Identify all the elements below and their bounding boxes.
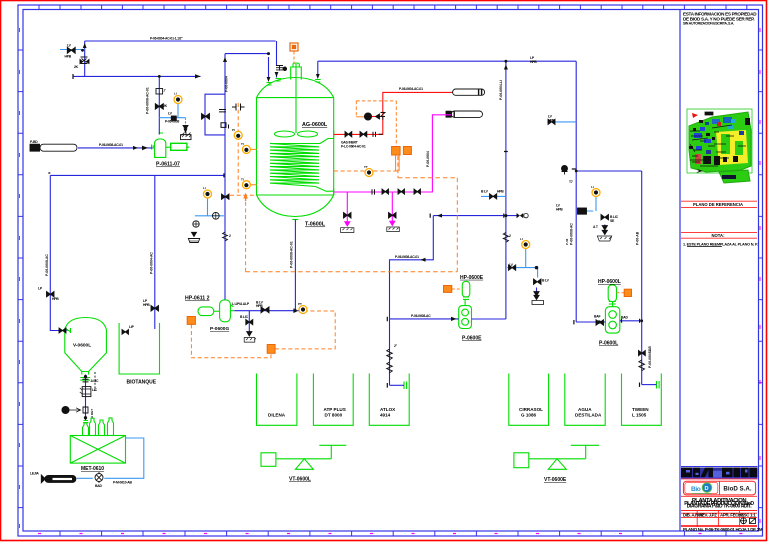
wire magenta funnel branch 347 <box>346 192 348 226</box>
valve loop 205 <box>202 114 210 120</box>
wire riser x505.9 <box>505 61 507 319</box>
svg-text:HP-0600L: HP-0600L <box>598 279 621 285</box>
svg-text:ESC 1:1: ESC 1:1 <box>741 512 756 517</box>
svg-text:D: D <box>705 486 709 492</box>
title block divider line <box>679 10 681 532</box>
magenta sprayer capsule <box>446 111 483 117</box>
wire bypass loop <box>205 94 225 135</box>
SMALL PIPE LABELS <box>30 37 652 489</box>
signal vessel right <box>334 156 398 178</box>
site plan yellow zone <box>716 130 748 165</box>
valve biotanque feed <box>151 306 159 312</box>
table texts <box>684 498 754 509</box>
svg-text:P-06-0608-AC-01: P-06-0608-AC-01 <box>395 255 419 259</box>
agitator impeller <box>275 131 295 137</box>
wire pump feed <box>78 147 153 149</box>
funnel drain 194 left chain <box>192 232 197 236</box>
MAGENTA LINES <box>334 115 452 226</box>
svg-text:P-0611-07: P-0611-07 <box>156 162 180 168</box>
svg-text:ATLOX: ATLOX <box>380 407 396 412</box>
vessel bottom tick <box>292 219 298 221</box>
signal HP-0600L stub <box>617 292 625 294</box>
instrument box V-0600 drop <box>82 387 91 397</box>
instrument bubble LV 526 <box>522 241 530 249</box>
coil inlet stub <box>320 139 334 144</box>
svg-text:P-06-0608: P-06-0608 <box>165 120 179 124</box>
strainer capsule bottom-left <box>45 475 76 482</box>
V-0600L inlet nozzle tick <box>65 328 71 332</box>
wire V-0600L bottom drop <box>85 375 87 421</box>
wire instrument drop x159 <box>158 76 160 134</box>
svg-text:AGUA: AGUA <box>578 407 592 412</box>
svg-text:P-06: P-06 <box>565 238 569 245</box>
tank TWEEN L 1505 <box>622 374 662 426</box>
pump P-0611-07 inlet ticks <box>152 133 163 150</box>
funnel 249 <box>247 332 252 336</box>
funnel drain 185 <box>183 126 188 130</box>
svg-text:B LV: B LV <box>542 279 550 283</box>
vessel side nozzle ticks <box>333 131 335 196</box>
wire funnel branch x605 <box>604 225 606 231</box>
inst chain left 196 <box>193 221 199 227</box>
svg-text:LIC: LIC <box>92 388 98 392</box>
interlock squares x396 <box>392 147 401 156</box>
BLACK SYMBOLS <box>30 47 645 483</box>
svg-text:1. ESTE PLANO REEMPLAZA AL PLA: 1. ESTE PLANO REEMPLAZA AL PLANO N. P. <box>683 242 758 246</box>
wire left drop <box>84 41 86 76</box>
instrument bubble PT 303 <box>299 306 307 314</box>
GREEN EQUIPMENT <box>65 63 662 469</box>
site plan black roads/marks <box>690 112 732 166</box>
svg-text:4914: 4914 <box>380 413 391 418</box>
wire L3 overhead <box>318 60 576 62</box>
signal HP-0600E stub <box>452 288 463 290</box>
valves red header <box>345 132 367 137</box>
svg-text:HPB: HPB <box>556 208 563 212</box>
wire magenta vessel drain header <box>334 115 452 192</box>
signal HP-0611-2 loop <box>191 324 271 357</box>
wire HP-0611-2 discharge run <box>234 310 299 312</box>
tank inlet tick ATLOX <box>404 382 407 390</box>
HP-0611-2 column <box>220 300 231 322</box>
svg-text:VT-0600E: VT-0600E <box>544 477 567 483</box>
biod logo red box <box>683 481 755 495</box>
svg-text:PI: PI <box>232 128 235 132</box>
valve V-0600 inlet <box>59 328 66 333</box>
svg-text:TI: TI <box>241 142 244 146</box>
valve V-0600 feed a <box>47 292 55 297</box>
wire cyan LV at riser <box>195 199 224 216</box>
TITLE BLOCK <box>680 10 757 532</box>
valves riser 641 <box>639 351 646 356</box>
wire cross header y171 <box>576 170 642 172</box>
svg-text:BioD S.A.: BioD S.A. <box>723 485 751 492</box>
tank ATP PLUS DT 8000 <box>313 374 353 426</box>
valve HP-0611 discharge <box>261 307 269 313</box>
wire funnel branch x249 <box>248 311 250 332</box>
svg-text:P-06-0608-AC: P-06-0608-AC <box>45 254 49 276</box>
svg-text:BIOTANQUE: BIOTANQUE <box>127 380 157 386</box>
wire V-0600L feed <box>50 175 62 330</box>
svg-text:AG-0600L: AG-0600L <box>302 122 328 128</box>
red table grid <box>681 496 757 526</box>
site plan yellow inner green blocks <box>721 134 730 154</box>
flange ticks <box>48 50 639 387</box>
magenta border numerals bottom <box>38 533 742 535</box>
svg-text:HP-0611 2: HP-0611 2 <box>185 296 210 302</box>
svg-text:P-BD: P-BD <box>30 140 38 144</box>
interlock square HP-0611-2 <box>187 317 195 325</box>
arrowhead y215 <box>437 214 442 218</box>
INSTRUMENT BUBBLES <box>174 92 600 314</box>
flange V-0600 drop <box>83 379 89 382</box>
svg-text:P-M-0610-AB: P-M-0610-AB <box>113 481 132 485</box>
wire red vessel gas out <box>334 92 453 134</box>
svg-text:P-0600L: P-0600L <box>599 341 618 347</box>
wire P-0600L discharge <box>620 320 642 322</box>
pump P-0600E body <box>459 306 472 329</box>
pump P-0600L body <box>605 307 619 333</box>
svg-text:P-06-0604-LI: P-06-0604-LI <box>499 80 503 100</box>
svg-text:BAD: BAD <box>621 316 628 320</box>
svg-text:HPB: HPB <box>143 303 150 307</box>
svg-text:ATP PLUS: ATP PLUS <box>324 407 346 412</box>
gauge dashed stub <box>94 372 96 391</box>
wire long header y175 <box>50 174 224 176</box>
svg-text:DIAGRAMA P&ID TK-0600 ADIT.: DIAGRAMA P&ID TK-0600 ADIT. <box>687 504 752 510</box>
wire riser x576 <box>575 61 577 322</box>
svg-text:SIN AUTORIZACION ESCRITA, S.A.: SIN AUTORIZACION ESCRITA, S.A. <box>683 22 734 26</box>
wire riser top run <box>225 53 269 55</box>
wire TWEEN feed <box>642 384 657 386</box>
svg-text:PLANTA ADITIVACION: PLANTA ADITIVACION <box>692 498 747 504</box>
svg-text:LI: LI <box>203 186 206 190</box>
wire cyan drain drop <box>185 118 187 130</box>
arrowhead L2 end <box>195 74 201 78</box>
svg-text:BAD: BAD <box>95 484 102 488</box>
wire L1 top <box>85 40 276 42</box>
signal top jog <box>398 177 457 179</box>
valve suction P-0600L <box>596 320 604 325</box>
valve on dome nozzle <box>276 65 283 71</box>
svg-text:T-0600L: T-0600L <box>305 222 326 228</box>
svg-text:DILENA: DILENA <box>268 413 286 418</box>
angle valve 537 <box>534 279 542 284</box>
projection symbols <box>740 517 756 524</box>
svg-text:A MET: A MET <box>90 409 94 418</box>
red flame arrestor capsule <box>453 89 485 95</box>
funnel magenta 347 <box>345 222 350 226</box>
svg-text:REV. J.PZ: REV. J.PZ <box>699 512 717 517</box>
valve magenta 392 <box>389 213 397 219</box>
svg-text:P-06-0608-AC: P-06-0608-AC <box>570 223 574 245</box>
wire BIOTANQUE feed <box>154 175 156 329</box>
MET-0610 bottles <box>83 421 88 423</box>
vessel manway nozzle <box>291 63 302 80</box>
wire P-0600E suction <box>390 318 459 320</box>
svg-text:DESTILADA: DESTILADA <box>575 413 602 418</box>
wire funnel branch x536 <box>536 288 538 297</box>
svg-text:P-06-0604-AC-01: P-06-0604-AC-01 <box>399 87 423 91</box>
svg-text:T7: T7 <box>569 180 573 184</box>
svg-text:HP-0600E: HP-0600E <box>460 275 484 281</box>
funnel 605 <box>602 230 607 234</box>
svg-text:VT-0600L: VT-0600L <box>289 477 311 483</box>
ARROWS <box>48 43 643 388</box>
wire cyan V-0600 inlet tick <box>62 330 68 332</box>
wire cyan top-left <box>60 49 85 51</box>
signal vessel top <box>293 52 295 64</box>
svg-text:L LIP/A ALP: L LIP/A ALP <box>232 302 250 306</box>
svg-text:B LIC: B LIC <box>240 315 249 319</box>
flex 225 <box>223 232 228 241</box>
wire drop to P-0600E <box>390 216 434 386</box>
CYAN LINES <box>60 50 596 479</box>
svg-text:TWEEN: TWEEN <box>632 407 649 412</box>
HP-0611-2 outlet stub <box>230 305 234 311</box>
svg-text:LEJIA: LEJIA <box>30 472 39 476</box>
airplane mark <box>696 169 703 173</box>
V-0600L hopper tank <box>65 318 107 372</box>
arrowhead L3 up 505 <box>504 65 508 70</box>
signal box at analyzers <box>356 101 396 146</box>
svg-text:TT: TT <box>364 165 368 169</box>
border ticks bottom <box>60 531 726 536</box>
vent symbol 565 <box>562 166 568 172</box>
svg-text:P-06-0604: P-06-0604 <box>426 151 430 167</box>
instrument bubble PI 237 <box>234 131 242 139</box>
site plan map frame <box>687 109 752 173</box>
signal bottom run <box>246 271 458 273</box>
svg-text:P-0600E: P-0600E <box>462 336 482 342</box>
svg-text:P-0600G: P-0600G <box>210 326 229 332</box>
funnel magenta 392 <box>390 221 395 225</box>
tank ATLOX 4914 <box>369 374 409 426</box>
interlock square HP-0600E <box>444 286 452 293</box>
valves magenta header <box>382 189 421 194</box>
svg-text:L 1505: L 1505 <box>632 413 647 418</box>
signal double drop below squares <box>396 155 400 171</box>
HP-0611-2 motor capsule <box>198 307 214 316</box>
instrument bubble LV 596 <box>592 189 600 197</box>
svg-text:LI: LI <box>174 92 177 96</box>
svg-text:LI: LI <box>520 237 523 241</box>
svg-text:HPB: HPB <box>497 190 504 194</box>
spec break 221 <box>219 110 226 128</box>
svg-text:B LV: B LV <box>481 190 489 194</box>
signal ladder cross run <box>230 194 257 196</box>
HP-0600E inline vessel <box>462 281 470 297</box>
HP-0600L inline vessel <box>608 285 616 302</box>
inst cross 215 <box>212 212 219 219</box>
line end instrument y215 <box>517 213 524 218</box>
svg-text:DT 8000: DT 8000 <box>325 413 343 418</box>
instrument bubble TI2 246 <box>242 181 250 189</box>
valve biotanque top <box>122 330 129 335</box>
svg-text:P-06-0608-AC-01: P-06-0608-AC-01 <box>99 143 123 147</box>
pump P-0611-07 motor box <box>171 143 187 150</box>
SITE MAP <box>687 109 752 183</box>
wire L1 drop to vessel <box>276 41 278 66</box>
arrowhead up L1 corner <box>83 43 87 48</box>
arrowhead nozzle down-arrows <box>275 72 279 77</box>
balance scale VT-0600L <box>261 453 276 467</box>
instrument bubble TT 369 <box>365 169 373 177</box>
RED LINES <box>334 92 453 134</box>
svg-text:NOTA:: NOTA: <box>712 233 725 238</box>
biodiesel banner <box>681 467 758 479</box>
wire tee y215.6 <box>433 215 518 217</box>
heating coil <box>270 144 320 187</box>
balance scale VT-0600E <box>514 453 529 468</box>
MET-0610 mixer tank <box>70 436 125 464</box>
wire magenta funnel branch 392 <box>391 192 393 226</box>
VERTICAL LABELS <box>45 76 652 418</box>
wire nozzle stub <box>269 57 277 79</box>
site plan south appendix <box>719 170 750 183</box>
wire cyan x576 <box>548 121 577 123</box>
instrument bubble TI 246 <box>242 145 250 153</box>
signal bubble stubs to wall <box>250 149 257 184</box>
signal ladder lower drop <box>245 195 247 272</box>
instrument bubble LI 178 <box>174 96 182 104</box>
tank CIRRASOL G 1086 <box>509 374 549 426</box>
svg-text:PLANO No. P-06-TK-0600-01 HOJA: PLANO No. P-06-TK-0600-01 HOJA 1 DE 2M <box>683 527 763 532</box>
site plan red arrow <box>692 113 698 118</box>
svg-text:BAF: BAF <box>594 315 600 319</box>
valve cluster top-left <box>67 47 75 53</box>
tank inlet tick TWEEN <box>657 381 660 389</box>
inst square cyan 583 <box>578 208 587 214</box>
svg-text:P-LC-0604-AC-01: P-LC-0604-AC-01 <box>341 145 366 149</box>
svg-text:PT: PT <box>298 302 302 306</box>
arrowhead suction L <box>599 320 604 324</box>
valve cyan 512 <box>508 265 515 270</box>
flex riser 389 <box>387 349 393 373</box>
wire cyan bubble 596 <box>579 197 596 212</box>
plano de referencia box <box>681 201 757 207</box>
flex riser 641 <box>639 360 645 371</box>
wire cyan LV bubble 526 <box>507 249 537 278</box>
valve cyan 493 <box>490 194 497 199</box>
svg-text:G 1086: G 1086 <box>521 413 537 418</box>
strainer capsule top-left <box>40 144 77 151</box>
signal left ladder <box>237 103 239 195</box>
wire cyan MET circuit <box>77 438 144 478</box>
svg-text:P-06-0604: P-06-0604 <box>225 76 229 92</box>
svg-text:DE BIOD S.A. Y NO PUEDE SER RE: DE BIOD S.A. Y NO PUEDE SER REP. <box>683 16 754 21</box>
nota box <box>681 233 757 239</box>
ORANGE SQUARES <box>187 43 631 353</box>
svg-text:HPB: HPB <box>256 304 263 308</box>
svg-text:PLANO DE REFERENCIA: PLANO DE REFERENCIA <box>693 202 743 207</box>
arrowhead pump feed <box>142 146 148 151</box>
wire vessel bottom drop <box>294 220 296 311</box>
svg-text:P-06-0604-AC: P-06-0604-AC <box>150 252 154 274</box>
svg-text:Bio: Bio <box>691 486 701 493</box>
instrument bubble LI 207 <box>204 190 212 198</box>
sink legs P-0611 <box>182 132 191 136</box>
svg-text:P-06-0604-AC-01-1.1/2": P-06-0604-AC-01-1.1/2" <box>150 37 183 41</box>
svg-text:HPB: HPB <box>65 54 72 58</box>
inst square cyan 172 <box>171 116 176 120</box>
signal stub to analyzer <box>356 116 365 118</box>
tank DILENA <box>257 374 297 426</box>
table cell texts <box>683 512 763 532</box>
svg-text:P-06-AB: P-06-AB <box>636 231 640 245</box>
wire main riser x225 <box>224 54 226 300</box>
svg-text:HPB: HPB <box>52 297 59 301</box>
arrowhead y258 left <box>421 258 426 262</box>
vessel seam lines <box>257 98 334 195</box>
vessel dome nozzle ticks <box>267 79 321 86</box>
site plan blue buildings <box>694 133 702 138</box>
sampler pigtail <box>62 406 69 413</box>
svg-text:.7: .7 <box>163 89 166 93</box>
notes text top right <box>683 12 757 26</box>
drum pump circle bottom-left <box>95 474 103 482</box>
flex riser 505 <box>503 233 508 243</box>
svg-text:LI: LI <box>591 185 594 189</box>
agitator shaft AG-0600L <box>295 64 297 133</box>
wire P-0600E discharge <box>472 318 506 320</box>
border ticks top <box>39 5 747 10</box>
FUNNELS AND SINKS <box>181 126 612 343</box>
valve magenta 347 <box>344 213 352 219</box>
svg-text:MET-0610: MET-0610 <box>81 466 104 472</box>
fitting V-0600 drop2 <box>83 407 88 413</box>
BIOTANQUE tank <box>119 323 159 374</box>
signal arrowhead left ladder <box>243 193 248 199</box>
svg-text:TI: TI <box>241 178 244 182</box>
title mid boxes <box>681 201 758 246</box>
svg-text:A LIC: A LIC <box>91 379 99 383</box>
signal HP-0611-2 to PT <box>275 311 335 349</box>
svg-text:V-0600L: V-0600L <box>73 343 91 349</box>
capacitor fitting on dashed ladder <box>229 104 245 199</box>
interlock square vessel top <box>290 43 298 51</box>
svg-text:P-06-0604-AB: P-06-0604-AB <box>648 346 652 368</box>
inst cross branch 249 <box>246 320 253 325</box>
V-0600L bottom valve tick <box>80 372 90 381</box>
ORANGE SIGNAL LINES <box>191 52 624 358</box>
wire cyan LP/HP x505 <box>481 195 506 197</box>
pump P-0611-07 capsule <box>155 139 166 158</box>
vessel T-0600L shell <box>257 98 334 195</box>
site plan green land <box>689 112 751 172</box>
V-0600L inlet green tick <box>70 328 72 333</box>
arrowhead riser up 225 <box>223 57 227 62</box>
arrowhead down 185 <box>184 129 188 134</box>
svg-text:P-06-0608-AC: P-06-0608-AC <box>411 314 431 318</box>
BOTTOM TITLE BLOCK <box>681 467 763 533</box>
BLUE PIPING <box>50 41 656 420</box>
signal arrow up left ladder <box>245 197 247 201</box>
svg-text:P-06-0608-AC-01: P-06-0608-AC-01 <box>290 241 294 268</box>
wire cyan LV at P-0611 <box>159 104 185 118</box>
valve cyan 551 <box>548 119 555 124</box>
tank AGUA DESTILADA <box>565 374 605 426</box>
valve riser 225a <box>222 194 230 199</box>
angle valve 605 <box>601 215 609 220</box>
wire L3 drop to vessel <box>317 61 319 74</box>
signal right ladder <box>456 178 458 272</box>
funnel 536 <box>534 295 539 299</box>
arrowhead suction E <box>451 317 457 321</box>
interlock square HP-0600L <box>624 289 631 296</box>
wire ATLOX feed <box>390 384 405 386</box>
wire L2 <box>73 75 201 77</box>
